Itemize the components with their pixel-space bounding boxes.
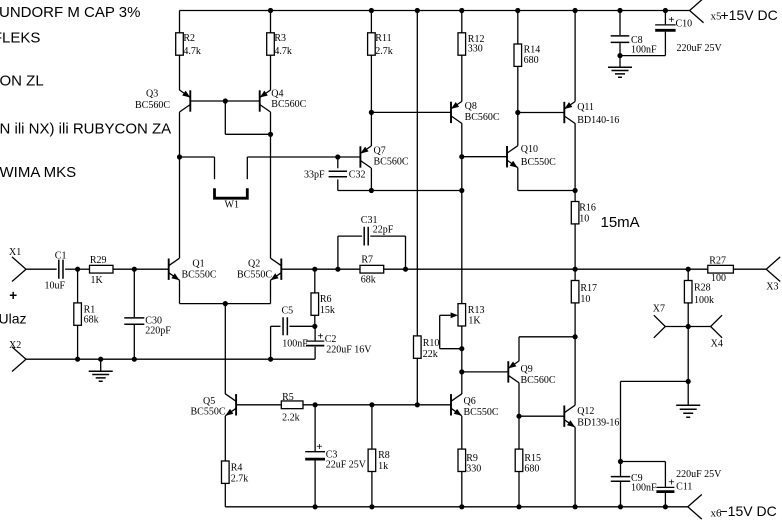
resistor R11: [368, 33, 376, 113]
transistor Q12: [564, 405, 575, 427]
wire output to R27: [688, 268, 708, 270]
svg-text:R6: R6: [320, 294, 332, 305]
wire W1 to Q7 base: [247, 156, 360, 158]
wire Q12 base: [519, 415, 564, 417]
wire Q6 emitter: [461, 416, 463, 449]
svg-text:15mA: 15mA: [601, 214, 640, 231]
label x5: [711, 11, 723, 23]
svg-text:68k: 68k: [84, 315, 99, 326]
capacitor C30: [124, 269, 144, 359]
svg-text:N ili NX) ili RUBYCON ZA: N ili NX) ili RUBYCON ZA: [0, 121, 171, 138]
svg-text:R8: R8: [378, 450, 390, 461]
wire Q11 collector: [574, 123, 576, 190]
label Q12: [577, 406, 619, 429]
connector X1: [12, 257, 26, 282]
label R1: [84, 305, 99, 326]
node R8 top junction: [369, 402, 374, 407]
node output R16 junction: [573, 267, 578, 272]
node Q9 base junction: [459, 369, 464, 374]
node Q11 emitter rail junction: [573, 8, 578, 13]
transistor Q11: [564, 102, 575, 124]
node C3 top junction: [313, 402, 318, 407]
svg-text:R4: R4: [231, 462, 243, 473]
svg-text:Q10: Q10: [521, 144, 538, 155]
wire R16 bottom lead: [574, 224, 576, 269]
resistor R28: [684, 269, 692, 326]
wire C32 bottom to VAS: [338, 190, 462, 192]
wire C8-C10 link: [620, 55, 665, 57]
svg-text:R7: R7: [361, 255, 373, 266]
svg-text:100nF: 100nF: [282, 338, 308, 349]
node R10 bias junction: [415, 402, 420, 407]
ground input: [89, 359, 113, 381]
capacitor C3: [305, 405, 325, 507]
label Q10: [521, 144, 556, 168]
svg-text:68k: 68k: [361, 274, 376, 285]
wire C9-C11 link: [621, 461, 666, 463]
label C11 plus: [668, 477, 674, 489]
svg-text:4.7k: 4.7k: [183, 46, 201, 57]
label C11 value: [676, 469, 722, 480]
wire Q5 emitter: [224, 416, 226, 461]
node C10 rail junction: [663, 8, 668, 13]
svg-text:BD140-16: BD140-16: [577, 115, 619, 126]
capacitor C9: [611, 462, 630, 507]
node Q4 collector junction: [268, 132, 273, 137]
label Q3: [135, 89, 170, 112]
node R13 wiper junction: [459, 346, 464, 351]
svg-text:+: +: [9, 288, 17, 303]
resistor R15: [515, 416, 523, 507]
svg-text:BC550C: BC550C: [464, 407, 499, 418]
wire R29 lead: [78, 268, 90, 270]
capacitor C1: [59, 260, 63, 279]
resistor R6: [311, 269, 319, 326]
label 33pF: [304, 170, 325, 181]
wire W1 right pin: [246, 157, 248, 179]
label Q8: [465, 101, 500, 123]
svg-text:C5: C5: [282, 306, 294, 317]
label C2: [325, 334, 337, 345]
wire Q12 collector: [574, 337, 576, 405]
resistor R10: [414, 336, 422, 358]
trimmer R13 wiper: [440, 312, 462, 348]
label R17: [580, 283, 597, 305]
svg-text:C2: C2: [325, 334, 337, 345]
resistor R12: [458, 33, 466, 102]
svg-text:BC560C: BC560C: [271, 99, 306, 110]
svg-text:Q1: Q1: [192, 258, 204, 269]
svg-text:1K: 1K: [91, 275, 104, 286]
svg-text:680: 680: [524, 55, 539, 66]
svg-text:Q2: Q2: [248, 258, 260, 269]
node Q7 collector junction: [369, 188, 374, 193]
connector X7: [654, 315, 666, 338]
node C30 top junction: [132, 267, 137, 272]
text Ulaz: [0, 311, 27, 327]
wire VAS column lower: [461, 191, 463, 304]
wire Q12 emitter: [574, 427, 576, 507]
label C3 value: [326, 460, 367, 471]
ground below C8: [608, 56, 632, 78]
svg-text:15k: 15k: [320, 305, 335, 316]
svg-text:1K: 1K: [468, 315, 481, 326]
svg-text:X2: X2: [9, 340, 21, 351]
wire X2 line: [26, 358, 315, 360]
svg-text:220uF 16V: 220uF 16V: [326, 344, 372, 355]
node R1 top junction: [75, 267, 80, 272]
capacitor C11: [656, 462, 674, 507]
transistor Q4: [260, 90, 271, 112]
resistor R2: [176, 33, 184, 91]
capacitor C5: [271, 317, 315, 359]
wire W1 left: [180, 156, 215, 158]
text 15mA: [601, 214, 640, 231]
wire output line: [406, 268, 689, 270]
svg-text:+: +: [668, 14, 674, 26]
svg-text:+: +: [317, 330, 323, 342]
label Q9: [521, 364, 556, 386]
text FLEKS note: [0, 30, 40, 47]
label R16: [579, 202, 596, 224]
node VAS junction: [459, 188, 464, 193]
node C9 bottom junction: [618, 504, 623, 509]
svg-text:+15V DC: +15V DC: [721, 7, 778, 23]
svg-text:22k: 22k: [423, 349, 438, 360]
svg-text:Q7: Q7: [374, 146, 386, 157]
text plus input: [9, 288, 17, 303]
svg-text:100nF: 100nF: [631, 482, 657, 493]
node R6 bottom junction: [312, 324, 317, 329]
wire -15V bottom rail: [225, 506, 688, 508]
node R15 bottom junction: [516, 504, 521, 509]
wire R14 top lead: [517, 11, 519, 45]
label Q2: [237, 258, 272, 280]
label R9: [466, 453, 481, 475]
svg-text:X7: X7: [653, 303, 665, 314]
wire Q11 emitter column: [574, 11, 576, 102]
label X4: [711, 339, 723, 350]
wire R17 bottom lead: [574, 303, 576, 337]
wire loop to R7: [338, 268, 360, 270]
label C9: [631, 473, 643, 484]
node R11 rail junction: [369, 8, 374, 13]
resistor R4: [222, 461, 230, 507]
wire Q3 collector: [179, 112, 181, 157]
resistor R7: [360, 265, 384, 273]
wire Q8 collector column: [461, 123, 463, 157]
node tail junction: [223, 301, 228, 306]
node ground mid junction: [686, 379, 691, 384]
svg-text:X4: X4: [711, 339, 723, 350]
transistor Q8: [451, 101, 462, 123]
svg-text:220uF 25V: 220uF 25V: [676, 469, 722, 480]
label W1: [225, 200, 239, 211]
wire Q1 collector: [179, 157, 181, 258]
label Q7: [374, 146, 409, 168]
svg-text:Ulaz: Ulaz: [0, 311, 27, 327]
label C8: [631, 35, 657, 56]
node R16 top junction: [573, 188, 578, 193]
resistor R3: [267, 33, 275, 91]
wire Q10 emitter: [518, 168, 575, 191]
label Q4: [271, 89, 306, 110]
svg-text:BC550C: BC550C: [191, 406, 226, 417]
node X7 junction: [686, 324, 691, 329]
node Vbe junction: [515, 110, 520, 115]
svg-text:R14: R14: [524, 45, 541, 56]
connector x5 +15V: [690, 0, 704, 23]
svg-text:R13: R13: [468, 305, 485, 316]
label Q6: [464, 396, 499, 418]
label R10: [423, 338, 440, 360]
capacitor C31: [364, 227, 368, 246]
svg-text:R5: R5: [282, 392, 294, 403]
label C10 value: [677, 43, 723, 54]
node Q3 collector junction: [177, 154, 182, 159]
svg-text:R29: R29: [90, 255, 107, 266]
node C3 bottom junction: [313, 504, 318, 509]
svg-text:2.2k: 2.2k: [282, 412, 300, 423]
svg-text:W1: W1: [225, 200, 239, 211]
svg-text:BC560C: BC560C: [135, 100, 170, 111]
wire VAS column: [461, 157, 463, 191]
resistor R8: [368, 405, 376, 507]
node C9 top junction: [618, 459, 623, 464]
svg-text:Q12: Q12: [577, 406, 594, 417]
label C2 plus: [317, 330, 323, 342]
label R15: [524, 453, 541, 475]
wire X1 to C1: [26, 268, 57, 270]
svg-text:330: 330: [466, 464, 481, 475]
svg-text:C1: C1: [55, 251, 67, 262]
node R11 bottom junction: [369, 110, 374, 115]
svg-text:2.7k: 2.7k: [375, 46, 393, 57]
svg-text:Q5: Q5: [203, 396, 215, 407]
wire to C9 node: [621, 381, 689, 461]
jumper W1 bracket: [215, 188, 248, 198]
svg-text:R17: R17: [580, 283, 597, 294]
node R8 bottom junction: [369, 504, 374, 509]
transistor Q6: [451, 394, 462, 416]
svg-text:WIMA MKS: WIMA MKS: [0, 164, 76, 181]
wire +15V top rail: [180, 10, 690, 12]
svg-text:22uF 25V: 22uF 25V: [326, 460, 367, 471]
label R11: [375, 33, 393, 57]
svg-text:10: 10: [579, 214, 589, 225]
wire Q10 base: [462, 156, 507, 158]
svg-text:Q8: Q8: [465, 101, 477, 112]
svg-text:FLEKS: FLEKS: [0, 30, 40, 47]
label C3 plus: [316, 441, 322, 453]
capacitor C32: [329, 157, 347, 191]
svg-text:R10: R10: [423, 338, 440, 349]
wire R29 to Q1: [113, 268, 169, 270]
label R8: [378, 450, 390, 472]
svg-text:BC560C: BC560C: [465, 112, 500, 123]
svg-text:BC550C: BC550C: [237, 269, 272, 280]
capacitor C10: [655, 11, 675, 56]
wire Q9 base: [462, 371, 509, 373]
label R14: [524, 45, 541, 67]
svg-text:R11: R11: [375, 33, 391, 44]
wire Q3-Q4 base link: [190, 100, 259, 102]
label C3: [326, 449, 338, 460]
node loop left junction: [335, 267, 340, 272]
svg-text:C10: C10: [676, 19, 693, 30]
label C2 value: [326, 344, 372, 355]
svg-text:10uF: 10uF: [45, 281, 66, 292]
wire R10 column: [416, 11, 418, 336]
svg-text:+: +: [316, 441, 322, 453]
label C10 plus: [668, 14, 674, 26]
node R14 rail junction: [515, 8, 520, 13]
text +15V DC: [721, 7, 778, 23]
text WIMA MKS note: [0, 164, 76, 181]
label R27: [709, 255, 726, 283]
wire Q9 collector: [518, 383, 520, 416]
node R3 rail junction: [268, 8, 273, 13]
node R10 rail junction: [415, 8, 420, 13]
wire R11 top lead: [370, 11, 372, 33]
resistor R5: [281, 401, 303, 409]
node C11 bottom junction: [663, 504, 668, 509]
node base link junction: [223, 98, 228, 103]
label R29: [90, 255, 107, 286]
svg-text:BC550C: BC550C: [521, 157, 556, 168]
label C32: [349, 170, 366, 181]
svg-text:C32: C32: [349, 170, 366, 181]
node R9 bottom junction: [459, 504, 464, 509]
label C11: [676, 481, 692, 492]
resistor R14: [514, 44, 522, 113]
connector X2: [12, 347, 26, 372]
svg-text:2.7k: 2.7k: [231, 474, 249, 485]
wire Q7 emitter lead: [370, 112, 372, 146]
node Q12 emitter junction: [573, 504, 578, 509]
label X7: [653, 303, 665, 314]
text RUBYCON note: [0, 121, 171, 138]
node Q10 base junction: [459, 154, 464, 159]
svg-text:−15V DC: −15V DC: [720, 503, 777, 519]
node C8 rail junction: [617, 8, 622, 13]
text MUNDORF note: [0, 4, 140, 21]
transistor Q5: [225, 394, 236, 416]
svg-text:Q9: Q9: [521, 364, 533, 375]
label R6: [320, 294, 335, 316]
svg-text:10: 10: [580, 294, 590, 305]
node R1 bottom junction: [75, 357, 80, 362]
node C30 bottom junction: [132, 357, 137, 362]
wire Q11 base: [518, 112, 565, 114]
svg-text:Q6: Q6: [464, 396, 476, 407]
wire R6 to loop: [315, 268, 338, 270]
wire Q5 collector: [224, 304, 226, 394]
label R12: [468, 34, 485, 55]
label C5: [282, 306, 294, 317]
node C8 bottom junction: [617, 53, 622, 58]
svg-text:C11: C11: [676, 481, 692, 492]
resistor R29: [90, 265, 114, 273]
svg-text:ON ZL: ON ZL: [0, 73, 44, 90]
capacitor C31 loop: [338, 236, 406, 269]
svg-text:X1: X1: [9, 247, 21, 258]
label R2: [183, 33, 201, 57]
svg-text:330: 330: [468, 44, 483, 55]
svg-text:R15: R15: [524, 453, 541, 464]
wire Q2 emitter: [225, 280, 270, 303]
transistor Q7: [360, 146, 371, 168]
transistor Q1: [169, 258, 180, 280]
connector X4: [711, 315, 723, 338]
svg-text:R28: R28: [694, 283, 711, 294]
label C1 value: [45, 281, 66, 292]
wire R13 bottom lead: [461, 326, 463, 349]
wire Q6 collector: [461, 372, 463, 394]
label C10: [676, 19, 693, 30]
label R3: [274, 33, 292, 57]
node ground input junction: [98, 357, 103, 362]
label X1: [9, 247, 21, 258]
node R12 rail junction: [459, 8, 464, 13]
trimmer R13: [458, 304, 466, 326]
wire base to mirror tap: [225, 101, 270, 134]
svg-text:R27: R27: [709, 255, 726, 266]
svg-text:100k: 100k: [694, 295, 714, 306]
label X3: [766, 281, 778, 292]
wire Q8 base: [371, 111, 451, 113]
wire R7 to loop: [384, 268, 406, 270]
label R7: [361, 255, 376, 286]
label Q1: [182, 258, 217, 280]
node C5 branch junction: [268, 357, 273, 362]
transistor Q2: [271, 258, 282, 280]
label X2: [9, 340, 21, 351]
label R5: [282, 392, 300, 423]
wire Q2 base to R6: [281, 268, 315, 270]
svg-text:BC560C: BC560C: [374, 156, 409, 167]
resistor R1: [74, 269, 82, 359]
label R13: [468, 305, 485, 326]
connector X3: [766, 257, 780, 282]
label C30: [145, 316, 162, 327]
node loop right junction: [403, 267, 408, 272]
wire X4 link: [688, 326, 710, 328]
node C32 top junction: [335, 154, 340, 159]
svg-text:R16: R16: [579, 202, 596, 213]
transistor Q10: [507, 146, 518, 168]
wire Q7 collector: [370, 168, 372, 191]
wire R3 top lead: [270, 11, 272, 33]
wire Q9 emitter: [519, 337, 575, 361]
svg-text:UNDORF M CAP 3%: UNDORF M CAP 3%: [0, 4, 140, 21]
svg-text:R3: R3: [274, 33, 286, 44]
svg-text:X3: X3: [766, 281, 778, 292]
svg-text:4.7k: 4.7k: [274, 46, 292, 57]
wire R13 to Q9 base: [461, 349, 463, 372]
node output R27 junction: [686, 267, 691, 272]
label C31: [361, 215, 378, 226]
label Q11: [577, 102, 619, 126]
node R17 bottom junction: [573, 334, 578, 339]
svg-text:680: 680: [524, 464, 539, 475]
wire X7 link: [665, 326, 688, 328]
svg-text:33pF: 33pF: [304, 170, 325, 181]
transistor Q9: [508, 361, 519, 383]
label R4: [231, 462, 249, 484]
svg-text:100nF: 100nF: [631, 45, 657, 56]
svg-text:BC550C: BC550C: [182, 269, 217, 280]
